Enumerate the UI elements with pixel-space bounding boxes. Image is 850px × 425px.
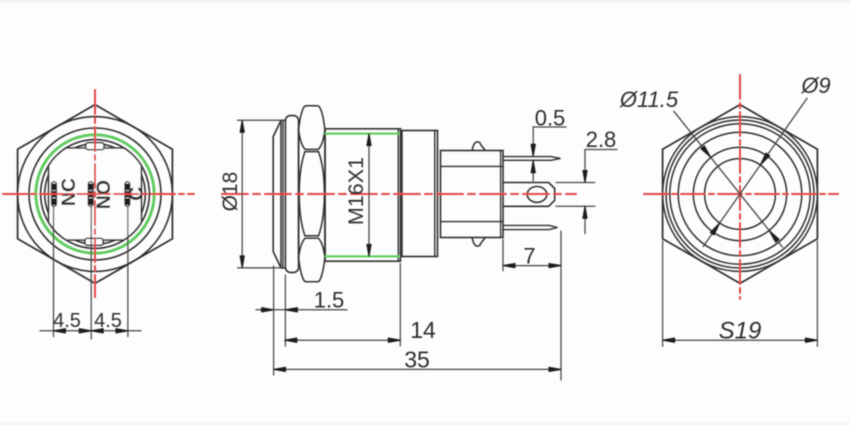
- base block right edge inner line: [500, 151, 502, 238]
- top keyway tab: [86, 143, 104, 150]
- terminal slot NC (left): [52, 182, 57, 206]
- circle for Ø9: [705, 159, 776, 230]
- circle for Ø11.5: [693, 147, 786, 240]
- centerline vertical (right view): [739, 75, 741, 299]
- middle terminal with hole: [503, 183, 555, 207]
- dim Ø18: extension top: [238, 119, 285, 121]
- bottom keyway tab: [85, 238, 103, 245]
- extension line from C slot: [127, 207, 129, 337]
- needle pin bottom: [503, 225, 558, 229]
- base block inner line bottom: [441, 221, 504, 223]
- terminal slot NO (middle): [88, 182, 93, 206]
- rear housing: [402, 131, 438, 257]
- dimension line 4.5 / 4.5: [40, 330, 141, 332]
- svg-text:S19: S19: [719, 318, 762, 345]
- head top edge: [281, 119, 285, 121]
- centerline vertical: [94, 90, 96, 297]
- dim 35: extension line left: [273, 266, 275, 375]
- dim 7: dimension line: [503, 265, 561, 267]
- barrel end face line: [397, 129, 399, 261]
- terminal slot C (right): [125, 182, 130, 206]
- terminal base block: [441, 151, 504, 238]
- terminal hole: [527, 187, 547, 203]
- hex nut side edges: [298, 129, 300, 259]
- centerline horizontal: [3, 193, 194, 195]
- svg-text:M16X1: M16X1: [344, 157, 368, 225]
- head bottom edge: [281, 267, 285, 269]
- dim S19: dimension line: [663, 339, 818, 341]
- snap hook bottom: [472, 238, 485, 246]
- needle pin top (0.5): [503, 157, 561, 161]
- extension line from NO slot: [90, 207, 92, 340]
- thread crest line top (green): [326, 133, 399, 135]
- circle r70: [670, 124, 810, 264]
- dim 35: dimension line: [274, 368, 561, 370]
- circle r62: [678, 132, 802, 256]
- svg-text:NC: NC: [58, 178, 80, 206]
- centerline horizontal (right view): [644, 193, 838, 195]
- dim 1.5: extension lines: [284, 275, 286, 346]
- dim 0.5: leader with arrows: [532, 127, 534, 156]
- dim S19: extension lines: [662, 241, 664, 346]
- button head front face with chamfers: [273, 120, 281, 268]
- dim 2.8: extension lines: [556, 182, 595, 184]
- svg-text:Ø9: Ø9: [800, 73, 830, 98]
- bezel circle tangent to hex flats: [663, 117, 818, 272]
- rear housing inner line: [434, 131, 436, 257]
- head rim line 2: [282, 121, 284, 268]
- base block inner line top: [441, 165, 504, 167]
- hexagon body (front view): [18, 105, 173, 284]
- svg-text:Ø18: Ø18: [219, 172, 242, 212]
- dim 14: dimension line: [285, 339, 401, 341]
- svg-text:1.5: 1.5: [314, 287, 345, 312]
- svg-text:14: 14: [410, 317, 436, 343]
- dim 7: extension lines: [502, 240, 504, 271]
- dim 1.5: dimension line: [256, 309, 347, 311]
- svg-text:4.5: 4.5: [53, 310, 81, 332]
- dim Ø18: extension bottom: [238, 267, 285, 269]
- leader line Ø9: [703, 98, 807, 246]
- nut top facet (octagonal blob): [299, 106, 325, 150]
- dim 14: extension line right: [399, 264, 401, 347]
- threaded barrel outline: [325, 129, 401, 261]
- nut middle facet lens (truncated): [299, 152, 324, 236]
- circle r74: [666, 120, 814, 268]
- extension line from NC slot: [53, 207, 55, 337]
- centerline (middle view): [222, 193, 576, 195]
- actuator circle: [45, 144, 146, 245]
- svg-text:4.5: 4.5: [94, 310, 122, 332]
- squared plastic housing (circle with four flats): [49, 148, 142, 240]
- nut bottom facet (octagonal blob): [299, 238, 325, 282]
- svg-text:Ø11.5: Ø11.5: [619, 87, 679, 112]
- outer ring circle: [29, 128, 161, 260]
- leader line Ø11.5: [674, 111, 783, 247]
- hexagon body (rear view): [663, 105, 818, 284]
- green illumination ring: [36, 135, 154, 253]
- dim Ø18: dimension line: [241, 120, 243, 268]
- dim 2.8: leader with arrows: [584, 150, 586, 183]
- bezel circle (tangent to hex flats): [18, 117, 173, 272]
- washer / bezel ring: [285, 116, 298, 273]
- inner ring circle: [41, 140, 150, 249]
- snap hook top: [472, 142, 485, 150]
- svg-text:7: 7: [523, 244, 535, 269]
- head rim line 1: [280, 121, 282, 268]
- svg-text:2.8: 2.8: [586, 127, 617, 152]
- dim M16X1: dimension line: [368, 134, 370, 257]
- svg-text:35: 35: [404, 347, 430, 373]
- thread crest line bottom (green): [326, 255, 399, 257]
